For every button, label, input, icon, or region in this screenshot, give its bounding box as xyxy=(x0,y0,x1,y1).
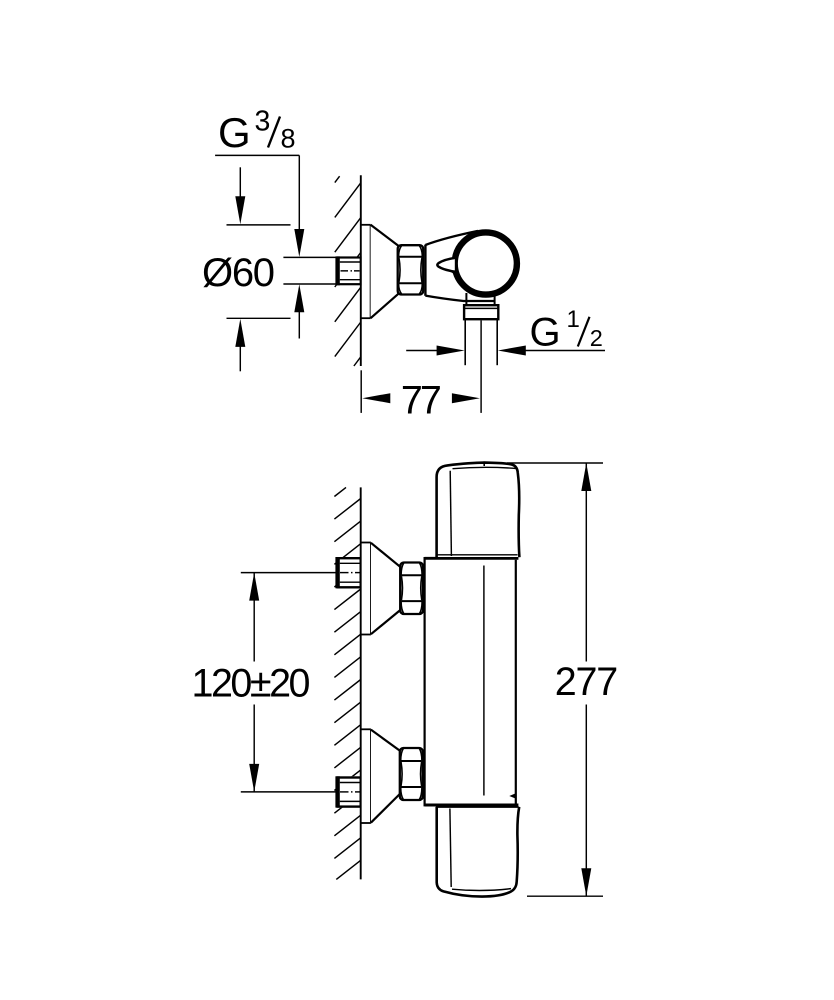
Ø60 arrow down xyxy=(235,167,245,224)
G3/8 union block in wall xyxy=(336,256,361,285)
knob pointer horn xyxy=(437,258,456,275)
G1/2 arrow left side xyxy=(406,346,464,356)
svg-text:2: 2 xyxy=(590,325,603,351)
dimension label G1/2 xyxy=(530,306,603,355)
upper union block xyxy=(336,557,361,588)
upper union nut xyxy=(400,563,423,615)
valve body (top) xyxy=(425,231,495,301)
thermostat body xyxy=(425,557,519,807)
upper escutcheon plate xyxy=(361,543,371,635)
svg-text:77: 77 xyxy=(401,379,442,423)
escutcheon plate (top) xyxy=(361,225,371,318)
wall line (lower) xyxy=(360,487,362,879)
lower union nut xyxy=(400,748,423,800)
Ø60 extension lines xyxy=(227,224,291,226)
svg-text:3: 3 xyxy=(255,106,271,138)
G3/8 leader arrow down xyxy=(294,155,304,257)
outlet neck under knob xyxy=(466,293,494,305)
svg-text:120±20: 120±20 xyxy=(192,661,311,705)
svg-text:Ø60: Ø60 xyxy=(202,251,275,295)
lower union block xyxy=(336,776,361,807)
outlet pipe xyxy=(465,319,497,365)
wall line (top) xyxy=(360,175,362,366)
120±20 dimension xyxy=(192,573,311,792)
outlet nut xyxy=(464,305,498,319)
bottom cap xyxy=(436,807,519,897)
top cap (temperature handle) xyxy=(437,461,520,557)
union nut (top) xyxy=(398,245,424,294)
277 dimension xyxy=(507,463,618,896)
G1/2 arrow right side xyxy=(498,346,605,356)
77 dimension xyxy=(361,370,480,422)
wall hatching (top) xyxy=(335,176,361,366)
Ø60 arrow up xyxy=(235,319,245,371)
escutcheon cone (top) xyxy=(371,225,399,318)
120±20 centerline lower xyxy=(241,791,337,793)
G3/8 extension lines xyxy=(283,256,336,258)
lower escutcheon cone xyxy=(371,729,401,823)
knob ring (top) xyxy=(455,232,517,294)
lower escutcheon plate xyxy=(361,729,371,823)
pipe centerline xyxy=(480,320,482,413)
120±20 centerline upper xyxy=(241,572,337,574)
svg-text:G: G xyxy=(530,311,561,355)
G3/8 arrow up (from below) xyxy=(294,284,304,338)
upper escutcheon cone xyxy=(371,543,401,635)
svg-text:277: 277 xyxy=(555,660,619,704)
wall hatching (lower) xyxy=(334,487,360,879)
svg-text:1: 1 xyxy=(567,306,580,333)
dimension label G3/8 xyxy=(215,106,299,156)
svg-text:8: 8 xyxy=(281,124,296,154)
svg-text:G: G xyxy=(218,109,251,156)
